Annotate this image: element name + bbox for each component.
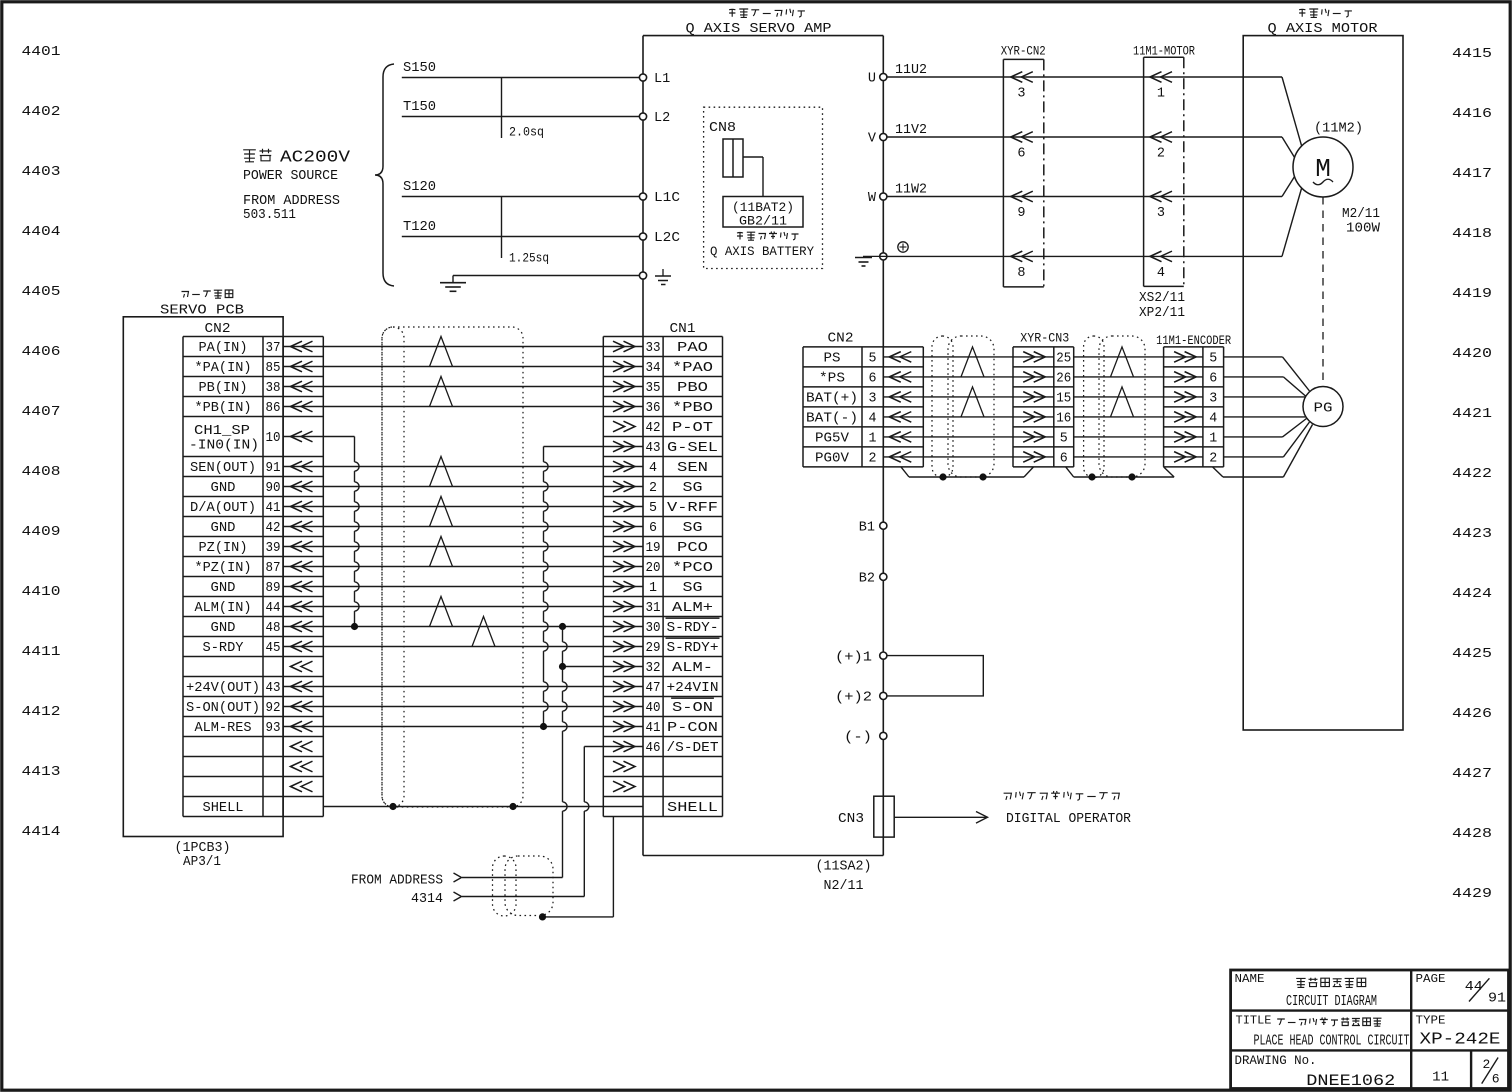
svg-text:PG5V: PG5V	[815, 432, 850, 447]
svg-text:25: 25	[1056, 352, 1071, 367]
svg-text:PB(IN): PB(IN)	[199, 381, 248, 396]
svg-text:XS2/11: XS2/11	[1139, 291, 1185, 306]
svg-text:29: 29	[646, 641, 661, 656]
svg-text:4404: 4404	[22, 224, 61, 240]
svg-text:S150: S150	[403, 61, 436, 76]
svg-text:T120: T120	[403, 220, 436, 235]
svg-text:+24VIN: +24VIN	[667, 681, 719, 696]
svg-text:34: 34	[646, 361, 661, 376]
svg-text:FROM ADDRESS: FROM ADDRESS	[351, 874, 443, 889]
svg-text:47: 47	[646, 681, 661, 696]
svg-text:43: 43	[646, 441, 661, 456]
svg-text:ALM(IN): ALM(IN)	[195, 601, 252, 616]
svg-text:S120: S120	[403, 180, 436, 195]
svg-text:GND: GND	[211, 481, 236, 496]
svg-text:32: 32	[646, 661, 661, 676]
svg-text:XYR-CN3: XYR-CN3	[1020, 331, 1069, 345]
svg-text:(11M2): (11M2)	[1314, 121, 1363, 136]
svg-text:26: 26	[1056, 372, 1071, 387]
svg-text:4314: 4314	[411, 892, 443, 907]
svg-text:PAGE: PAGE	[1416, 972, 1446, 986]
svg-text:11M1-MOTOR: 11M1-MOTOR	[1133, 44, 1195, 58]
svg-text:9: 9	[1017, 206, 1025, 221]
svg-text:4402: 4402	[22, 104, 61, 120]
svg-text:43: 43	[266, 681, 281, 696]
svg-text:89: 89	[266, 581, 281, 596]
svg-text:4425: 4425	[1452, 646, 1492, 662]
svg-text:4409: 4409	[22, 524, 61, 540]
svg-text:+24V(OUT): +24V(OUT)	[186, 681, 260, 696]
svg-text:90: 90	[266, 481, 281, 496]
svg-text:SERVO PCB: SERVO PCB	[160, 302, 244, 318]
svg-text:DIGITAL OPERATOR: DIGITAL OPERATOR	[1006, 812, 1131, 827]
svg-text:S-RDY+: S-RDY+	[667, 641, 719, 656]
svg-text:P-OT: P-OT	[672, 421, 713, 436]
svg-text:4417: 4417	[1452, 166, 1492, 182]
svg-text:4: 4	[649, 461, 657, 476]
svg-text:U: U	[868, 72, 876, 87]
svg-text:11W2: 11W2	[895, 183, 927, 198]
svg-text:SEN: SEN	[677, 461, 708, 476]
svg-text:GND: GND	[211, 621, 236, 636]
svg-text:4: 4	[1157, 266, 1165, 281]
svg-text:2: 2	[869, 452, 877, 467]
svg-text:G-SEL: G-SEL	[667, 441, 718, 456]
svg-text:4411: 4411	[22, 644, 61, 660]
svg-text:S-RDY: S-RDY	[203, 641, 244, 656]
svg-text:2: 2	[1157, 147, 1165, 162]
svg-text:1: 1	[649, 581, 657, 596]
svg-text:4423: 4423	[1452, 526, 1492, 542]
svg-text:5: 5	[869, 352, 877, 367]
svg-text:NAME: NAME	[1235, 972, 1265, 986]
svg-text:T150: T150	[403, 100, 436, 115]
svg-text:SG: SG	[683, 481, 703, 496]
svg-text:4405: 4405	[22, 284, 61, 300]
svg-text:6: 6	[1060, 452, 1068, 467]
svg-text:10: 10	[266, 431, 281, 446]
svg-text:36: 36	[646, 401, 661, 416]
svg-text:Q AXIS BATTERY: Q AXIS BATTERY	[710, 244, 814, 259]
svg-text:4416: 4416	[1452, 106, 1492, 122]
svg-text:44: 44	[266, 601, 281, 616]
svg-text:20: 20	[646, 561, 661, 576]
svg-text:SG: SG	[683, 521, 703, 536]
svg-text:/S-DET: /S-DET	[667, 741, 719, 756]
svg-text:15: 15	[1056, 392, 1071, 407]
svg-text:3: 3	[1157, 206, 1165, 221]
svg-text:11M1-ENCODER: 11M1-ENCODER	[1156, 334, 1231, 348]
svg-text:BAT(-): BAT(-)	[806, 412, 858, 427]
svg-text:46: 46	[646, 741, 661, 756]
svg-text:CN2: CN2	[828, 332, 854, 347]
svg-text:BAT(+): BAT(+)	[806, 392, 858, 407]
svg-text:ALM+: ALM+	[672, 601, 713, 616]
svg-text:91: 91	[1488, 991, 1506, 1007]
svg-text:41: 41	[646, 721, 661, 736]
svg-text:4412: 4412	[22, 704, 61, 720]
svg-text:35: 35	[646, 381, 661, 396]
svg-text:39: 39	[266, 541, 281, 556]
svg-text:4: 4	[1209, 412, 1217, 427]
svg-text:85: 85	[266, 361, 281, 376]
svg-text:SHELL: SHELL	[203, 801, 244, 816]
svg-text:GB2/11: GB2/11	[739, 214, 787, 228]
svg-text:V-RFF: V-RFF	[667, 501, 718, 516]
svg-text:L2C: L2C	[654, 231, 680, 246]
svg-text:ALM-RES: ALM-RES	[195, 721, 252, 736]
svg-text:16: 16	[1056, 412, 1071, 427]
svg-text:*PS: *PS	[819, 372, 845, 387]
svg-text:FROM ADDRESS: FROM ADDRESS	[243, 194, 340, 209]
svg-text:42: 42	[266, 521, 281, 536]
svg-text:PZ(IN): PZ(IN)	[199, 541, 248, 556]
svg-text:4429: 4429	[1452, 886, 1492, 902]
svg-text:PAO: PAO	[677, 341, 708, 356]
svg-text:1: 1	[869, 432, 877, 447]
svg-text:4406: 4406	[22, 344, 61, 360]
svg-text:31: 31	[646, 601, 661, 616]
svg-text:ALM-: ALM-	[672, 661, 713, 676]
svg-text:100W: 100W	[1346, 221, 1381, 236]
svg-text:48: 48	[266, 621, 281, 636]
svg-text:2: 2	[649, 481, 657, 496]
svg-text:N2/11: N2/11	[824, 879, 864, 894]
svg-text:PCO: PCO	[677, 541, 708, 556]
svg-text:11: 11	[1432, 1069, 1449, 1085]
svg-text:4421: 4421	[1452, 406, 1492, 422]
svg-text:PLACE HEAD CONTROL CIRCUIT: PLACE HEAD CONTROL CIRCUIT	[1254, 1032, 1410, 1049]
svg-text:4407: 4407	[22, 404, 61, 420]
svg-text:L1: L1	[654, 72, 670, 87]
svg-text:5: 5	[1060, 432, 1068, 447]
svg-text:8: 8	[1017, 266, 1025, 281]
svg-text:503.511: 503.511	[243, 208, 296, 223]
svg-text:XP2/11: XP2/11	[1139, 306, 1185, 321]
svg-text:5: 5	[649, 501, 657, 516]
svg-text:POWER SOURCE: POWER SOURCE	[243, 169, 338, 184]
svg-text:CH1_SP: CH1_SP	[194, 424, 250, 439]
svg-text:SHELL: SHELL	[667, 801, 718, 816]
svg-text:(1PCB3): (1PCB3)	[175, 841, 231, 856]
svg-text:11V2: 11V2	[895, 123, 927, 138]
svg-text:11U2: 11U2	[895, 63, 927, 78]
svg-text:D/A(OUT): D/A(OUT)	[190, 501, 256, 516]
svg-text:XYR-CN2: XYR-CN2	[1001, 44, 1046, 58]
svg-text:AP3/1: AP3/1	[183, 855, 221, 870]
svg-text:CN8: CN8	[709, 121, 736, 136]
svg-text:1: 1	[1209, 432, 1217, 447]
svg-text:4: 4	[869, 412, 877, 427]
svg-text:V: V	[868, 132, 877, 147]
svg-text:19: 19	[646, 541, 661, 556]
svg-text:CIRCUIT DIAGRAM: CIRCUIT DIAGRAM	[1286, 993, 1377, 1010]
svg-text:XP-242E: XP-242E	[1420, 1030, 1501, 1049]
svg-text:M2/11: M2/11	[1342, 207, 1380, 222]
svg-text:TITLE: TITLE	[1236, 1014, 1272, 1028]
svg-text:6: 6	[869, 372, 877, 387]
svg-text:33: 33	[646, 341, 661, 356]
svg-text:L2: L2	[654, 111, 670, 126]
svg-text:86: 86	[266, 401, 281, 416]
svg-text:DRAWING No.: DRAWING No.	[1235, 1054, 1317, 1068]
svg-text:93: 93	[266, 721, 281, 736]
svg-text:(11BAT2): (11BAT2)	[732, 201, 794, 215]
svg-text:(-): (-)	[844, 731, 872, 746]
svg-text:GND: GND	[211, 581, 236, 596]
svg-text:4418: 4418	[1452, 226, 1492, 242]
svg-text:4427: 4427	[1452, 766, 1492, 782]
svg-text:37: 37	[266, 341, 281, 356]
svg-text:30: 30	[646, 621, 661, 636]
svg-text:*PAO: *PAO	[672, 361, 713, 376]
svg-text:W: W	[868, 191, 877, 206]
svg-text:5: 5	[1209, 352, 1217, 367]
svg-text:P-CON: P-CON	[667, 721, 718, 736]
svg-text:2: 2	[1209, 452, 1217, 467]
svg-text:4424: 4424	[1452, 586, 1492, 602]
svg-text:1.25sq: 1.25sq	[509, 251, 549, 266]
svg-text:6: 6	[649, 521, 657, 536]
svg-text:3: 3	[1017, 87, 1025, 102]
svg-text:1: 1	[1157, 87, 1165, 102]
svg-text:S-ON: S-ON	[672, 701, 713, 716]
svg-text:2.0sq: 2.0sq	[509, 125, 544, 140]
svg-text:SG: SG	[683, 581, 703, 596]
svg-text:4419: 4419	[1452, 286, 1492, 302]
svg-text:4403: 4403	[22, 164, 61, 180]
svg-text:45: 45	[266, 641, 281, 656]
svg-text:CN1: CN1	[670, 322, 696, 337]
svg-text:6: 6	[1017, 147, 1025, 162]
svg-text:4415: 4415	[1452, 46, 1492, 62]
svg-text:(+)1: (+)1	[835, 650, 872, 665]
svg-text:4428: 4428	[1452, 826, 1492, 842]
svg-text:Q AXIS MOTOR: Q AXIS MOTOR	[1268, 21, 1379, 37]
svg-text:92: 92	[266, 701, 281, 716]
svg-text:(+)2: (+)2	[835, 691, 872, 706]
svg-text:*PA(IN): *PA(IN)	[195, 361, 252, 376]
svg-text:B1: B1	[859, 520, 875, 535]
svg-text:*PCO: *PCO	[672, 561, 713, 576]
svg-text:PA(IN): PA(IN)	[199, 341, 248, 356]
svg-text:87: 87	[266, 561, 281, 576]
svg-text:*PZ(IN): *PZ(IN)	[195, 561, 252, 576]
svg-text:4413: 4413	[22, 764, 61, 780]
svg-text:SEN(OUT): SEN(OUT)	[190, 461, 256, 476]
svg-text:S-RDY-: S-RDY-	[667, 621, 719, 636]
svg-text:3: 3	[1209, 392, 1217, 407]
svg-text:4408: 4408	[22, 464, 61, 480]
svg-text:4420: 4420	[1452, 346, 1492, 362]
svg-text:DNEE1062: DNEE1062	[1306, 1072, 1395, 1090]
svg-text:-IN0(IN): -IN0(IN)	[189, 439, 259, 454]
svg-text:CN3: CN3	[838, 812, 864, 827]
svg-text:4422: 4422	[1452, 466, 1492, 482]
svg-text:Q AXIS SERVO AMP: Q AXIS SERVO AMP	[686, 21, 832, 37]
svg-text:4426: 4426	[1452, 706, 1492, 722]
svg-text:3: 3	[869, 392, 877, 407]
svg-text:4414: 4414	[22, 824, 61, 840]
svg-text:4401: 4401	[22, 44, 61, 60]
svg-text:GND: GND	[211, 521, 236, 536]
svg-text:*PBO: *PBO	[672, 401, 713, 416]
svg-text:CN2: CN2	[205, 322, 231, 337]
svg-text:TYPE: TYPE	[1416, 1014, 1446, 1028]
svg-text:S-ON(OUT): S-ON(OUT)	[186, 701, 260, 716]
svg-text:*PB(IN): *PB(IN)	[195, 401, 252, 416]
svg-text:42: 42	[646, 421, 661, 436]
svg-text:38: 38	[266, 381, 281, 396]
svg-text:AC200V: AC200V	[280, 148, 351, 167]
svg-text:L1C: L1C	[654, 191, 680, 206]
svg-text:41: 41	[266, 501, 281, 516]
svg-text:4410: 4410	[22, 584, 61, 600]
svg-text:PBO: PBO	[677, 381, 708, 396]
svg-text:6: 6	[1492, 1071, 1500, 1086]
svg-text:PS: PS	[824, 352, 841, 367]
svg-text:(11SA2): (11SA2)	[816, 860, 872, 875]
svg-text:6: 6	[1209, 372, 1217, 387]
svg-text:B2: B2	[859, 572, 875, 587]
svg-text:44: 44	[1465, 979, 1483, 995]
svg-text:40: 40	[646, 701, 661, 716]
svg-text:PG0V: PG0V	[815, 452, 850, 467]
svg-text:PG: PG	[1314, 400, 1333, 416]
svg-text:91: 91	[266, 461, 281, 476]
svg-text:2: 2	[1482, 1057, 1490, 1072]
